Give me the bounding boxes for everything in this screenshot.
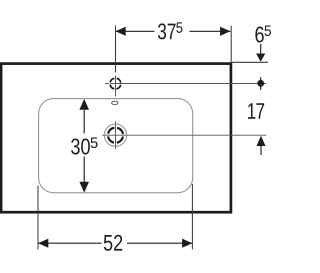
dim label 37.5: [158, 22, 183, 39]
drain outer circle: [104, 124, 126, 146]
dim label 52: [104, 235, 122, 251]
dim 6.5 arrow down: [256, 54, 265, 62]
dim 52 arrow right: [182, 239, 192, 248]
washbasin outer outline: [1, 64, 231, 213]
dim 52 line right segment: [127, 242, 192, 244]
overflow slot: [112, 101, 118, 104]
dim 17 arrow up: [257, 136, 266, 146]
drain centerline horizontal: [102, 134, 266, 136]
dim 52 extension line right: [191, 184, 193, 250]
dim 52 line left segment: [38, 242, 102, 244]
dim 17 arrow tail: [260, 146, 262, 155]
tap hole centerline vertical: [115, 26, 117, 97]
dim 37.5 line left segment: [116, 30, 155, 32]
drain inner circle: [108, 128, 123, 143]
dim label 30.5: [71, 138, 98, 155]
drain centerline vertical: [115, 121, 117, 149]
dim 30.5 arrow down: [79, 182, 89, 193]
dim 52 arrow left: [38, 239, 48, 248]
dim label 6.5: [255, 26, 271, 43]
dim 52 extension line left: [37, 186, 39, 250]
dim 6.5 arrow tail: [260, 44, 262, 54]
chain dimension dot: [257, 77, 264, 90]
dim 37.5 extension line right: [230, 26, 232, 63]
dim 30.5 line lower segment: [83, 157, 85, 184]
dim 30.5 line upper segment: [83, 110, 85, 134]
dim 30.5 arrow up: [79, 99, 89, 110]
tap hole centerline horizontal: [105, 83, 266, 85]
dim 37.5 arrow right: [220, 27, 230, 36]
dim 37.5 arrow left: [116, 27, 126, 36]
dim 6.5 extension line: [232, 61, 268, 63]
basin bowl inner outline: [39, 99, 193, 193]
dim label 17: [248, 103, 264, 119]
tap hole: [110, 78, 121, 89]
dim 37.5 line right segment: [190, 30, 231, 32]
